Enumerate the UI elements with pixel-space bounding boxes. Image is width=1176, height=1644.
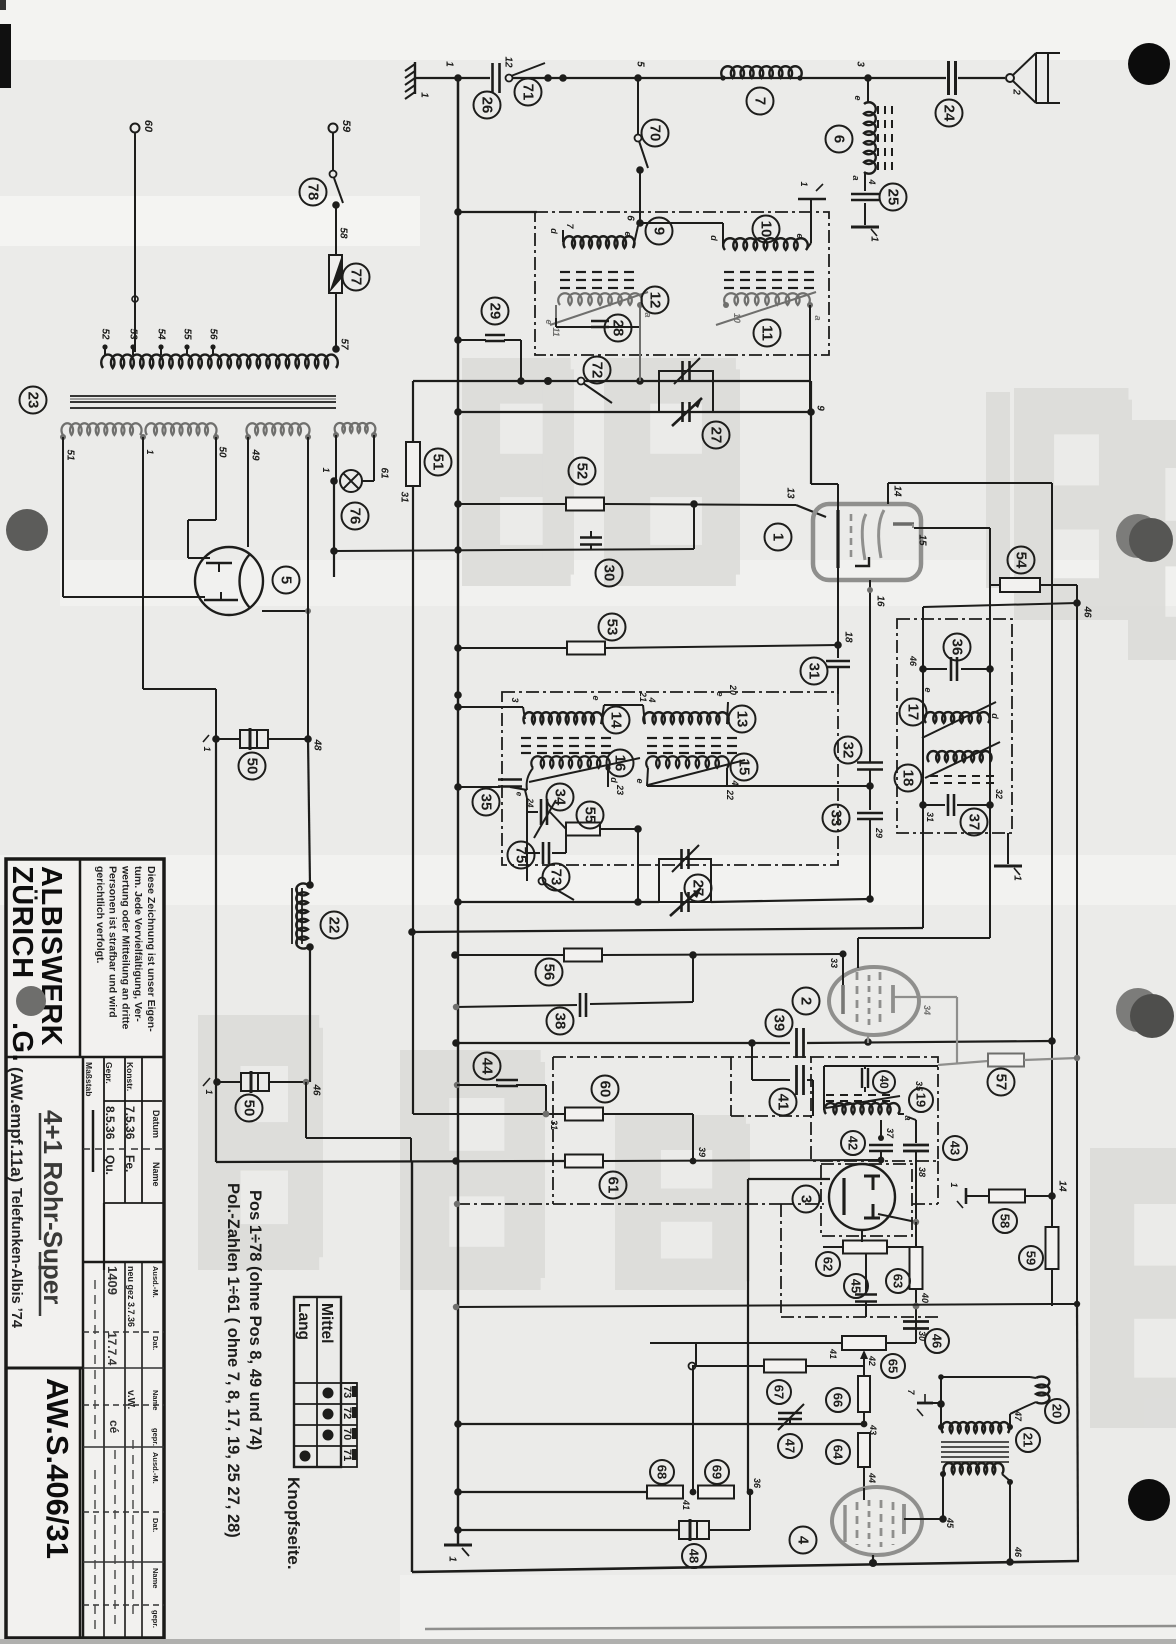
svg-text:46: 46 — [930, 1334, 945, 1348]
cap 30 — [590, 545, 592, 549]
wire node1 down to heavy rail — [215, 739, 217, 1162]
tube 2 cathode to resistor 57 — [893, 996, 957, 998]
svg-text:47: 47 — [783, 1439, 798, 1453]
node 3 — [864, 74, 872, 82]
grid cap terminal above coil 10 — [810, 199, 812, 243]
svg-text:Mittel: Mittel — [318, 1303, 335, 1343]
wire node1 down — [457, 78, 459, 212]
tube 1 lower column: cap 31, node 18 — [837, 568, 839, 658]
wire: 49b down to node 48 — [307, 437, 309, 611]
resistor 59 — [1046, 1227, 1059, 1269]
AVC line y1043 — [456, 1042, 790, 1044]
svg-text:27: 27 — [708, 427, 725, 444]
svg-text:36: 36 — [949, 639, 966, 656]
secondary to output terminal 46 — [1009, 1482, 1011, 1562]
svg-text:gepr.: gepr. — [151, 1428, 160, 1446]
svg-text:28: 28 — [610, 320, 627, 337]
tube 3 envelope — [829, 1164, 895, 1230]
resistor 53 line y=648 — [458, 647, 567, 649]
svg-text:14: 14 — [1057, 1180, 1068, 1192]
svg-text:1: 1 — [202, 746, 212, 751]
link 14-13 — [604, 704, 643, 706]
svg-text:gepr.: gepr. — [151, 1610, 160, 1628]
svg-text:v.W.: v.W. — [125, 1390, 136, 1409]
svg-text:19: 19 — [914, 1093, 929, 1107]
svg-text:61: 61 — [379, 467, 390, 479]
svg-text:16: 16 — [612, 755, 629, 772]
svg-text:Personen ist strafbar und wird: Personen ist strafbar und wird — [107, 866, 119, 1018]
tube 2 inner electrodes — [841, 985, 845, 1014]
svg-text:48: 48 — [687, 1549, 702, 1563]
svg-text:21: 21 — [638, 691, 648, 702]
capacitor 24 — [868, 77, 946, 79]
wire 51 to rectifier — [62, 437, 64, 597]
cap 38 drop — [692, 955, 694, 1002]
rectifier tube 5 — [195, 547, 263, 615]
tube 2 bottom lead — [867, 1035, 869, 1043]
coil 18 — [927, 751, 991, 762]
tube 4 electrodes — [843, 1505, 846, 1542]
svg-text:ZÜRICH: ZÜRICH — [6, 866, 39, 979]
resistor 52 line y=504 — [458, 503, 566, 505]
scan blob left — [6, 509, 48, 551]
tube 1 grid diagonal — [796, 505, 826, 517]
resistor 58 line — [965, 1188, 968, 1204]
svg-text:68: 68 — [655, 1465, 670, 1479]
svg-text:9: 9 — [651, 227, 668, 235]
wire 50 to rectifier grid — [215, 437, 217, 520]
svg-text:71: 71 — [520, 84, 537, 101]
svg-text:Diese Zeichnung ist unser Eige: Diese Zeichnung ist unser Eigen- — [145, 866, 157, 1032]
screen jog wire into tube 2 — [857, 938, 859, 968]
tube 3 electrodes — [842, 1178, 845, 1215]
svg-text:54: 54 — [1013, 552, 1030, 569]
svg-text:e: e — [923, 687, 933, 692]
svg-text:44: 44 — [867, 1472, 877, 1483]
svg-text:15: 15 — [917, 534, 928, 546]
tube 3 shield box (dash-dot) — [821, 1164, 912, 1236]
svg-text:Qu.: Qu. — [103, 1155, 117, 1175]
bias divider column x693 — [692, 1366, 694, 1492]
svg-text:46: 46 — [1082, 605, 1093, 618]
svg-text:73: 73 — [341, 1386, 353, 1398]
svg-text:62: 62 — [821, 1257, 836, 1271]
inner top wire — [824, 1065, 938, 1067]
tube 1 pin 16 (cathode) — [869, 580, 871, 597]
cap 28 between secondaries — [555, 318, 557, 327]
svg-text:50: 50 — [241, 1100, 258, 1117]
svg-text:33: 33 — [829, 958, 839, 968]
svg-text:2: 2 — [1011, 88, 1022, 95]
svg-text:46: 46 — [311, 1083, 322, 1096]
tube 4 envelope — [832, 1487, 922, 1555]
main left rail x=458 — [457, 78, 459, 1545]
svg-text:23: 23 — [25, 392, 42, 409]
dash-dot box tube 3 — [780, 1204, 782, 1317]
svg-text:35: 35 — [478, 794, 495, 811]
resistor 54 — [990, 584, 1000, 586]
svg-text:1: 1 — [770, 533, 787, 541]
svg-text:27: 27 — [690, 880, 707, 897]
svg-text:48: 48 — [312, 738, 323, 751]
svg-text:e: e — [853, 95, 863, 100]
cap 45 — [865, 1254, 867, 1292]
page bottom shadow line — [425, 1626, 1176, 1629]
svg-text:57: 57 — [339, 338, 350, 350]
tube 5 electrodes — [206, 562, 232, 565]
svg-text:23: 23 — [615, 784, 625, 795]
svg-text:4: 4 — [867, 178, 877, 184]
svg-text:wertung oder Mitteilung an dri: wertung oder Mitteilung an dritte — [119, 865, 131, 1029]
svg-text:7.5.36: 7.5.36 — [123, 1106, 137, 1140]
svg-text:36: 36 — [752, 1478, 762, 1489]
svg-text:45: 45 — [945, 1517, 955, 1529]
svg-text:6: 6 — [831, 135, 848, 143]
svg-text:67: 67 — [772, 1385, 787, 1399]
svg-text:31: 31 — [549, 1120, 559, 1130]
svg-text:tum. Jede Vervielfältigung, Ve: tum. Jede Vervielfältigung, Ver- — [132, 866, 144, 1022]
dash-dot screen line y1204 — [457, 1203, 781, 1205]
IF2 inner frame — [922, 607, 924, 805]
transformer 21 primary — [938, 1424, 944, 1430]
svg-text:26: 26 — [479, 97, 496, 114]
svg-text:47: 47 — [1013, 1410, 1023, 1422]
svg-text:59: 59 — [1024, 1251, 1039, 1265]
svg-text:25: 25 — [885, 189, 902, 206]
node 6 to coil 10 — [640, 222, 723, 224]
svg-text:Knopfseite.: Knopfseite. — [284, 1477, 303, 1570]
top wire y=78 — [415, 77, 490, 79]
svg-text:44: 44 — [479, 1058, 496, 1075]
capacitor 26 — [491, 63, 494, 93]
svg-text:59: 59 — [340, 120, 352, 133]
svg-text:3: 3 — [798, 1195, 815, 1203]
svg-text:72: 72 — [341, 1407, 353, 1419]
trimmer 27 assembly top — [659, 371, 713, 412]
svg-text:31: 31 — [806, 663, 823, 680]
coil 17 — [924, 712, 989, 723]
switch 70 — [635, 135, 642, 142]
svg-text:55: 55 — [182, 328, 193, 340]
cap 29 — [454, 336, 462, 344]
wire 49 to tube top — [247, 437, 249, 547]
coil 11 right terminal down to node 9 — [809, 305, 811, 412]
svg-text:20: 20 — [1050, 1404, 1065, 1418]
output transformer terminal 7 — [917, 1402, 933, 1405]
wire: mains terminal 60 lead — [131, 124, 140, 133]
trimmer 27b assembly — [659, 859, 711, 902]
volume pot arrow 42 — [863, 1356, 865, 1367]
transformer top wire — [941, 1376, 1030, 1378]
svg-text:32: 32 — [994, 789, 1004, 799]
svg-text:Name: Name — [151, 1390, 160, 1410]
tube 1 electrodes — [836, 510, 839, 568]
resistor 60 line y1114 — [413, 1113, 565, 1115]
svg-text:63: 63 — [891, 1274, 906, 1288]
svg-text:1409: 1409 — [105, 1266, 120, 1295]
logo/disclaimer divider — [79, 859, 82, 1057]
svg-text:e: e — [715, 691, 725, 696]
svg-text:Pol.-Zahlen 1÷61 ( ohne 7, 8: Pol.-Zahlen 1÷61 ( ohne 7, 8, 17, 19, 25… — [224, 1183, 242, 1538]
svg-text:65: 65 — [886, 1359, 901, 1373]
svg-text:21: 21 — [1021, 1433, 1036, 1447]
svg-text:cé: cé — [107, 1420, 121, 1434]
svg-text:51: 51 — [430, 454, 447, 471]
svg-text:Ausd.-M.: Ausd.-M. — [151, 1266, 160, 1298]
svg-text:3: 3 — [510, 697, 520, 702]
svg-text:45: 45 — [849, 1279, 864, 1293]
svg-text:60: 60 — [597, 1081, 614, 1098]
wire y930 — [412, 928, 923, 932]
switch 78 — [330, 171, 337, 178]
svg-text:1: 1 — [321, 467, 331, 472]
punch hole bottom right — [1128, 1479, 1170, 1521]
approval table — [103, 1057, 105, 1203]
svg-text:37: 37 — [966, 814, 983, 831]
pin 14 wire right and down — [888, 482, 1052, 484]
svg-text:64: 64 — [831, 1445, 846, 1460]
svg-text:neu gez 3.7.36: neu gez 3.7.36 — [126, 1266, 136, 1327]
svg-text:50: 50 — [244, 758, 261, 775]
svg-text:.G.: .G. — [6, 1022, 38, 1062]
wire 46 node down the right side — [1076, 603, 1078, 1306]
punch hole top right — [1128, 43, 1170, 85]
resistor 61 line y1161 — [216, 1161, 564, 1162]
cap 47 line y1424 — [458, 1423, 864, 1425]
svg-text:61: 61 — [605, 1177, 622, 1194]
wire lamp node down and right to heater line — [333, 481, 335, 551]
tube 5 anode wire right — [262, 610, 308, 612]
svg-text:Ausd.-M.: Ausd.-M. — [151, 1452, 160, 1484]
coil 19 — [824, 1103, 899, 1114]
watermark letters — [198, 358, 1176, 1428]
table left border — [82, 1057, 85, 1639]
wire 56-line into tube 2 grid bar — [839, 950, 846, 957]
svg-text:14: 14 — [608, 712, 625, 729]
resistor 55 — [566, 823, 600, 836]
cap 46 — [903, 1320, 929, 1323]
cathode column x=870 with caps 32/33 — [869, 597, 871, 762]
svg-text:50: 50 — [217, 446, 228, 458]
svg-text:Fe.: Fe. — [123, 1155, 137, 1172]
svg-text:12: 12 — [503, 56, 514, 68]
wire band line to node 9 column — [810, 381, 812, 484]
svg-text:78: 78 — [305, 184, 322, 201]
svg-text:4: 4 — [795, 1536, 812, 1545]
svg-text:2: 2 — [798, 997, 815, 1005]
svg-text:57: 57 — [993, 1074, 1010, 1091]
wire into coil 14 — [458, 706, 523, 708]
svg-text:60: 60 — [142, 120, 154, 133]
wire y412 with double trimmer 27 — [458, 411, 811, 413]
svg-text:58: 58 — [998, 1214, 1013, 1228]
electrolytic 48 line y1530 — [458, 1529, 679, 1531]
svg-text:1: 1 — [949, 1182, 959, 1187]
IF can (13/14) boundary — [502, 692, 838, 865]
secondary winding 50 — [145, 423, 216, 435]
cap 40 — [864, 1066, 866, 1069]
svg-text:Name: Name — [151, 1568, 160, 1588]
scan blob right lower middle — [1116, 988, 1160, 1032]
coil 12 (gray, variable) — [558, 293, 642, 305]
antenna trimmer 6 (vertical coil) — [867, 78, 869, 102]
cap 44 — [454, 1082, 460, 1088]
svg-text:5: 5 — [278, 576, 295, 584]
switch 71 — [506, 75, 513, 82]
svg-text:70: 70 — [341, 1428, 353, 1440]
band switch table — [294, 1297, 341, 1467]
svg-text:e: e — [591, 695, 601, 700]
resistor 51 — [406, 442, 420, 486]
revision table — [83, 1261, 164, 1264]
svg-text:12: 12 — [647, 292, 664, 309]
bottom frame — [412, 1561, 1079, 1572]
svg-text:Pos 1÷78 (ohne Pos 8, 49: Pos 1÷78 (ohne Pos 8, 49 und 74) — [246, 1190, 264, 1450]
svg-text:77: 77 — [348, 269, 365, 286]
cap 75 — [527, 852, 540, 854]
svg-text:1: 1 — [447, 1556, 458, 1562]
secondary left lead down to cathode node 45 — [942, 1474, 944, 1519]
resistor 63 column — [915, 1222, 917, 1248]
svg-text:10: 10 — [758, 221, 775, 238]
svg-text:53: 53 — [604, 619, 621, 636]
chassis term below cap 25 — [851, 226, 879, 229]
svg-text:e: e — [515, 792, 524, 797]
svg-text:Name: Name — [151, 1162, 161, 1187]
switch 73 — [539, 878, 546, 885]
svg-text:22: 22 — [725, 789, 735, 800]
svg-text:42: 42 — [867, 1355, 877, 1366]
svg-text:51: 51 — [65, 449, 76, 461]
cap 34 (variable) — [527, 811, 538, 813]
svg-text:33: 33 — [828, 810, 845, 827]
svg-text:a: a — [813, 315, 823, 320]
svg-text:16: 16 — [875, 595, 886, 607]
svg-text:4+1 Rohr-Super: 4+1 Rohr-Super — [38, 1110, 68, 1304]
svg-text:17: 17 — [905, 704, 922, 721]
svg-text:11: 11 — [759, 325, 776, 341]
wire y786 from cathode column — [647, 785, 870, 787]
IF2 left column down — [922, 805, 924, 928]
svg-text:7: 7 — [752, 97, 769, 105]
svg-text:1: 1 — [419, 92, 430, 98]
wire 46 node down/right jog — [305, 1082, 307, 1138]
tube 4 leads — [863, 1488, 865, 1500]
svg-text:e: e — [623, 231, 633, 236]
svg-text:11: 11 — [551, 327, 561, 336]
svg-text:41: 41 — [828, 1348, 838, 1359]
svg-text:Dat.: Dat. — [151, 1518, 160, 1532]
svg-text:56: 56 — [541, 964, 558, 981]
cap 42 — [869, 1144, 893, 1147]
main rail x=413 — [412, 381, 414, 443]
node 9 wire into tube plate — [811, 483, 838, 485]
IF2 inner box top wire — [923, 603, 1077, 607]
svg-text:76: 76 — [347, 508, 364, 525]
IF1 cores — [560, 271, 570, 273]
cap 39 — [795, 1028, 798, 1058]
label 23 — [20, 387, 47, 414]
svg-text:1: 1 — [1012, 875, 1023, 881]
svg-text:34: 34 — [922, 1005, 932, 1015]
coil 7 — [721, 66, 801, 78]
svg-text:30: 30 — [917, 1331, 927, 1341]
wire node5 down to switch 70 — [637, 78, 639, 134]
svg-text:Datum: Datum — [151, 1110, 161, 1138]
title block frame — [6, 859, 164, 1638]
svg-text:Konstr.: Konstr. — [125, 1062, 135, 1091]
svg-text:38: 38 — [552, 1013, 569, 1030]
svg-text:40: 40 — [877, 1075, 891, 1089]
left frame column — [411, 1162, 413, 1572]
transformer 23 primary winding — [101, 355, 338, 368]
coil 16 — [531, 756, 609, 768]
tube 1 envelope — [813, 504, 921, 580]
svg-text:1: 1 — [869, 236, 880, 242]
svg-text:d: d — [549, 228, 559, 234]
cap 37 line — [923, 804, 945, 806]
svg-text:46: 46 — [908, 655, 918, 667]
screen column x748 — [747, 1179, 749, 1492]
svg-text:9: 9 — [815, 405, 826, 411]
filter cap 50 (second) — [213, 1078, 221, 1086]
tube 3 anode diagonal — [878, 1214, 916, 1222]
fuse 77 — [329, 255, 342, 293]
IF can 2 boundary — [897, 619, 1012, 833]
svg-text:41: 41 — [681, 1499, 691, 1510]
transformer 21 secondary — [944, 1463, 1004, 1474]
IF can 1 boundary (dash-dot) — [535, 212, 829, 355]
dash-dot box around 39/41 — [553, 1056, 811, 1058]
svg-text:6: 6 — [625, 215, 636, 221]
svg-text:Telefunken-Albis ʼ74: Telefunken-Albis ʼ74 — [8, 1188, 24, 1328]
IF2 ground stub — [1007, 833, 1009, 864]
svg-text:Lang: Lang — [295, 1303, 312, 1340]
secondary winding 51 — [61, 423, 141, 435]
svg-text:34: 34 — [552, 789, 569, 806]
svg-text:56: 56 — [208, 328, 219, 340]
svg-text:29: 29 — [487, 303, 504, 320]
svg-text:31: 31 — [925, 812, 935, 822]
svg-text:18: 18 — [900, 770, 917, 787]
resistor 66 column — [863, 1367, 865, 1377]
choke 22 — [308, 739, 310, 885]
svg-text:40: 40 — [920, 1292, 930, 1303]
svg-text:75: 75 — [513, 847, 530, 864]
svg-text:15: 15 — [736, 759, 753, 776]
svg-text:20: 20 — [728, 684, 738, 695]
black mark top left edge — [0, 24, 11, 88]
coil 19 tap down — [880, 1120, 882, 1140]
pilot lamp 76 — [335, 435, 337, 481]
svg-text:66: 66 — [831, 1393, 846, 1407]
svg-text:24: 24 — [941, 105, 958, 122]
center tap 1 wire down — [142, 437, 144, 689]
padder block 34/55/75 — [526, 798, 528, 881]
svg-text:73: 73 — [548, 869, 565, 886]
filter cap 50 (first) — [212, 735, 220, 743]
svg-text:14: 14 — [892, 485, 903, 497]
svg-text:42: 42 — [846, 1136, 861, 1150]
svg-text:5: 5 — [635, 61, 646, 67]
ground bottom left rail — [444, 1544, 472, 1547]
svg-text:31: 31 — [399, 491, 410, 503]
coil 12 right terminal down to band wire — [639, 305, 641, 381]
svg-text:38: 38 — [917, 1167, 927, 1177]
svg-text:Maßstab: Maßstab — [84, 1062, 94, 1096]
svg-text:Gepr.: Gepr. — [104, 1062, 114, 1084]
coil 9 — [562, 230, 564, 242]
